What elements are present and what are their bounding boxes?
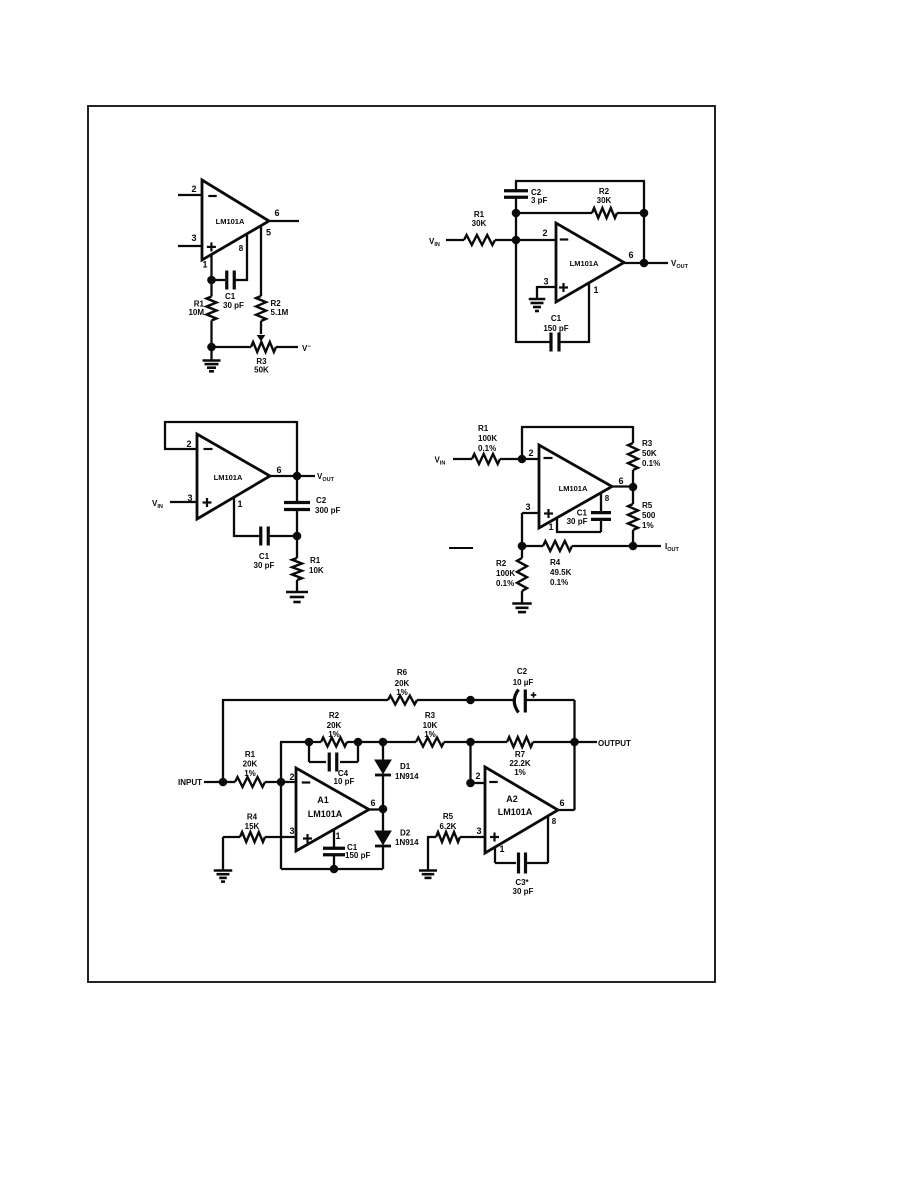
wire pin 1 leg A2 (circuit 5) <box>494 847 496 863</box>
potentiometer R3 (circuit 1) <box>251 342 276 352</box>
resistor R3 (circuit 4) <box>632 426 634 443</box>
plus input symbol (circuit 1) <box>207 246 216 248</box>
resistor R2 (circuit 2) <box>592 208 617 218</box>
resistor R2 (circuit 4) <box>521 546 523 558</box>
wire pin 1 vertical (circuit 1) <box>210 255 212 281</box>
op-amp A2 (circuit 5) <box>485 767 558 853</box>
wire pin 1 vertical (circuit 2) <box>588 283 590 343</box>
wire top rail (circuit 2) <box>515 180 645 182</box>
wire pin 2 input (circuit 2) <box>516 239 556 241</box>
wire left riser to top rail (circuit 5) <box>222 700 224 782</box>
wire R6 to C2 node (circuit 5) <box>417 699 471 701</box>
wire A2 output (circuit 5) <box>558 809 575 811</box>
svg-text:10M: 10M <box>188 308 204 317</box>
svg-text:8: 8 <box>605 494 610 503</box>
resistor R4 (circuit 4) <box>543 541 572 551</box>
svg-text:100K: 100K <box>478 434 497 443</box>
wire pin 8 (circuit 1) <box>235 279 248 281</box>
svg-text:2: 2 <box>528 448 533 458</box>
ground (circuit 2) <box>529 298 546 301</box>
plus input symbol (circuit 3) <box>203 501 212 503</box>
wire C2 down to output line (circuit 5) <box>573 700 575 742</box>
svg-text:3: 3 <box>191 233 196 243</box>
potentiometer wiper arrow (circuit 1) <box>257 335 266 342</box>
svg-text:R2: R2 <box>496 559 507 568</box>
svg-text:C1: C1 <box>259 552 270 561</box>
svg-text:C1: C1 <box>225 292 236 301</box>
op-amp LM101A (circuit 2) <box>556 223 624 302</box>
svg-text:R3: R3 <box>642 439 653 448</box>
op-amp A1 (circuit 5) <box>296 768 369 851</box>
svg-text:1: 1 <box>548 522 553 532</box>
junction left bottom node (circuit 4) <box>518 542 527 551</box>
svg-text:30 pF: 30 pF <box>254 561 275 570</box>
svg-text:0.1%: 0.1% <box>496 579 514 588</box>
resistor R1 (circuit 1) <box>210 280 212 297</box>
svg-text:6: 6 <box>274 208 279 218</box>
svg-text:5.1M: 5.1M <box>271 308 289 317</box>
minus input symbol (circuit 1) <box>208 195 217 197</box>
svg-text:R5: R5 <box>443 812 454 821</box>
wire pin 5 vertical (circuit 1) <box>260 225 262 296</box>
svg-text:R1: R1 <box>310 556 321 565</box>
wire R1 to A1 pin 2 (circuit 5) <box>265 781 296 783</box>
wire pin 3 input (circuit 1) <box>178 245 202 247</box>
svg-text:LM101A: LM101A <box>559 484 588 493</box>
svg-text:10 pF: 10 pF <box>334 777 355 786</box>
capacitor C3 (circuit 5) <box>517 853 520 874</box>
svg-text:R4: R4 <box>247 813 258 822</box>
junction feedback/output top (circuit 2) <box>640 209 649 218</box>
wire input to pin 2 (circuit 5) <box>223 781 235 783</box>
svg-text:0.1%: 0.1% <box>642 459 660 468</box>
junction feedback tee (circuit 2) <box>512 209 521 218</box>
svg-text:R5: R5 <box>642 501 653 510</box>
svg-text:10K: 10K <box>309 566 324 575</box>
resistor R1 (circuit 4) <box>472 454 500 464</box>
svg-text:R7: R7 <box>515 750 526 759</box>
resistor R1 (circuit 3) <box>296 536 298 558</box>
junction node pin1/C1/R1 (circuit 1) <box>207 276 216 285</box>
resistor R4 (circuit 5) <box>223 836 240 838</box>
junction A2 pin 2 node (circuit 5) <box>466 779 475 788</box>
wire pin 1 leg (circuit 4) <box>556 518 558 532</box>
svg-text:R3: R3 <box>425 711 436 720</box>
minus input symbol (circuit 2) <box>560 238 569 240</box>
svg-text:150 pF: 150 pF <box>345 851 370 860</box>
junction C1 bottom node (circuit 5) <box>330 865 339 874</box>
svg-text:30 pF: 30 pF <box>223 301 244 310</box>
svg-text:3: 3 <box>525 502 530 512</box>
svg-text:20K: 20K <box>395 679 410 688</box>
resistor R7 (circuit 5) <box>507 737 533 747</box>
svg-text:1: 1 <box>499 844 504 854</box>
wire pin 3 input (circuit 3) <box>170 501 197 503</box>
resistor R6 (circuit 5) <box>388 696 417 705</box>
svg-text:49.5K: 49.5K <box>550 568 572 577</box>
svg-text:LM101A: LM101A <box>308 809 343 819</box>
svg-text:3 pF: 3 pF <box>531 196 548 205</box>
svg-text:C1: C1 <box>551 314 562 323</box>
capacitor C2 polarized (circuit 5) <box>514 690 518 713</box>
wire feedback right leg (circuit 3) <box>296 421 298 476</box>
junction output node (circuit 2) <box>640 259 649 268</box>
wire output pin 6 (circuit 2) <box>624 262 668 264</box>
junction top rail node (circuit 5) <box>466 696 475 705</box>
wire top rail left (circuit 5) <box>222 699 388 701</box>
capacitor C2 (circuit 3) <box>296 476 298 502</box>
junction A1 pin 2 node (circuit 5) <box>277 778 286 787</box>
resistor R2 (circuit 5) <box>321 738 347 747</box>
svg-text:LM101A: LM101A <box>498 807 533 817</box>
svg-text:6.2K: 6.2K <box>440 822 457 831</box>
junction summing node (circuit 2) <box>512 236 521 245</box>
junction node ground rail (circuit 1) <box>207 343 216 352</box>
wire bottom rail (circuit 4) <box>522 545 543 547</box>
wire node to feedback tee (circuit 2) <box>515 213 517 240</box>
resistor R3 (circuit 5) <box>416 738 444 747</box>
junction INPUT node (circuit 5) <box>219 778 228 787</box>
junction A1 output node (circuit 5) <box>379 805 388 814</box>
svg-text:LM101A: LM101A <box>570 259 599 268</box>
junction input node (circuit 4) <box>518 455 527 464</box>
resistor R2 (circuit 1) <box>256 296 266 321</box>
wire output pin 6 (circuit 1) <box>269 220 299 222</box>
wire pin 1 leg (circuit 3) <box>233 497 235 537</box>
svg-text:10 µF: 10 µF <box>513 678 534 687</box>
wire R2 to D1 node (circuit 5) <box>347 741 416 743</box>
wire pin 3 to ground (circuit 2) <box>537 286 556 288</box>
junction A2 feedback node (circuit 5) <box>466 738 475 747</box>
svg-text:6: 6 <box>618 476 623 486</box>
svg-text:30K: 30K <box>597 196 612 205</box>
resistor R1 (circuit 2) <box>464 235 495 245</box>
svg-text:R1: R1 <box>478 424 489 433</box>
minus input symbol (circuit 3) <box>204 448 213 450</box>
plus input symbol A2 (circuit 5) <box>490 836 499 838</box>
svg-text:2: 2 <box>289 772 294 782</box>
svg-text:0.1%: 0.1% <box>478 444 496 453</box>
svg-text:R2: R2 <box>329 711 340 720</box>
plus polarity mark C2 (circuit 5) <box>531 694 537 696</box>
wire output pin 6 (circuit 4) <box>612 485 633 487</box>
ground R4 (circuit 5) <box>214 869 233 872</box>
svg-text:LM101A: LM101A <box>214 473 243 482</box>
svg-text:D1: D1 <box>400 762 411 771</box>
svg-text:0.1%: 0.1% <box>550 578 568 587</box>
svg-text:1%: 1% <box>244 769 256 778</box>
resistor R1 (circuit 5) <box>235 777 265 787</box>
junction R2/C4 left node (circuit 5) <box>305 738 314 747</box>
svg-text:3: 3 <box>476 826 481 836</box>
wire VIN to R1 (circuit 2) <box>446 239 464 241</box>
minus input symbol (circuit 4) <box>544 457 553 459</box>
svg-text:R6: R6 <box>397 668 408 677</box>
svg-text:1N914: 1N914 <box>395 838 419 847</box>
svg-text:50K: 50K <box>642 449 657 458</box>
capacitor C4 (circuit 5) <box>308 742 310 762</box>
svg-text:C2: C2 <box>517 667 528 676</box>
svg-text:30K: 30K <box>472 219 487 228</box>
svg-text:OUTPUT: OUTPUT <box>598 739 631 748</box>
wire R1 to summing node (circuit 2) <box>495 239 516 241</box>
svg-text:10K: 10K <box>423 721 438 730</box>
svg-text:1N914: 1N914 <box>395 772 419 781</box>
svg-text:8: 8 <box>552 817 557 826</box>
resistor R5 (circuit 5) <box>428 836 436 838</box>
wire output pin 6 (circuit 3) <box>270 475 315 477</box>
plus input symbol A1 (circuit 5) <box>303 837 312 839</box>
svg-text:A1: A1 <box>317 795 329 805</box>
svg-text:50K: 50K <box>254 366 269 375</box>
wire pin 2 input (circuit 3) <box>164 448 197 450</box>
wire input-node down leg (circuit 2) <box>515 240 517 343</box>
wire R3 to R7 (circuit 5) <box>444 741 507 743</box>
wire pin 3 leg (circuit 4) <box>522 512 539 514</box>
svg-text:30 pF: 30 pF <box>567 517 588 526</box>
svg-text:C2: C2 <box>316 496 327 505</box>
svg-text:1: 1 <box>237 499 242 509</box>
capacitor C1 (circuit 4) <box>591 511 611 514</box>
svg-text:R4: R4 <box>550 558 561 567</box>
svg-text:1%: 1% <box>424 730 436 739</box>
junction D1 top node (circuit 5) <box>379 738 388 747</box>
capacitor C1 (circuit 5) <box>333 830 335 848</box>
svg-text:5: 5 <box>266 228 271 238</box>
svg-text:2: 2 <box>191 184 196 194</box>
wire pin 2 input (circuit 1) <box>178 194 202 196</box>
wire bottom rail (circuit 1) <box>212 346 252 348</box>
svg-text:6: 6 <box>276 465 281 475</box>
wire A2 pin 2 input (circuit 5) <box>471 782 486 784</box>
wire node to C2 (circuit 5) <box>471 699 515 701</box>
svg-text:INPUT: INPUT <box>178 778 202 787</box>
svg-text:100K: 100K <box>496 569 515 578</box>
svg-text:1%: 1% <box>642 521 654 530</box>
svg-text:R2: R2 <box>599 187 610 196</box>
svg-text:6: 6 <box>559 798 564 808</box>
junction OUTPUT node (circuit 5) <box>570 738 579 747</box>
wire R5 to ground (circuit 5) <box>427 836 429 871</box>
wire pin 2 input (circuit 4) <box>522 458 539 460</box>
plus input symbol (circuit 2) <box>559 286 568 288</box>
svg-text:300 pF: 300 pF <box>315 506 340 515</box>
svg-text:1%: 1% <box>514 768 526 777</box>
minus input symbol A1 (circuit 5) <box>302 781 311 783</box>
svg-text:3: 3 <box>543 277 548 287</box>
wire VIN to R1 (circuit 4) <box>453 458 472 460</box>
svg-text:22.2K: 22.2K <box>509 759 531 768</box>
capacitor C2 (circuit 2) <box>515 197 517 214</box>
svg-text:6: 6 <box>370 798 375 808</box>
svg-text:1: 1 <box>593 285 598 295</box>
ground (circuit 3) <box>286 591 308 594</box>
ground (circuit 4) <box>512 602 532 605</box>
svg-text:1%: 1% <box>396 688 408 697</box>
svg-text:30 pF: 30 pF <box>513 887 534 896</box>
svg-text:2: 2 <box>475 771 480 781</box>
wire feedback to R2 (circuit 2) <box>516 212 592 214</box>
wire INPUT lead (circuit 5) <box>204 781 223 783</box>
diode D2 (circuit 5) <box>382 809 384 831</box>
plus input symbol (circuit 4) <box>544 512 553 514</box>
svg-text:R1: R1 <box>245 750 256 759</box>
svg-text:8: 8 <box>239 244 244 253</box>
svg-text:1: 1 <box>335 831 340 841</box>
wire output vertical (circuit 2) <box>643 213 645 263</box>
op-amp LM101A (circuit 1) <box>202 180 269 260</box>
wire R4 to ground (circuit 5) <box>222 837 224 870</box>
junction right bottom node (circuit 4) <box>629 542 638 551</box>
svg-text:2: 2 <box>542 228 547 238</box>
wire riser to A2 pin 2 (circuit 5) <box>469 742 471 783</box>
stray dash mark (circuit 4) <box>449 547 473 549</box>
svg-text:R2: R2 <box>271 299 282 308</box>
svg-text:C3*: C3* <box>515 878 529 887</box>
op-amp LM101A (circuit 4) <box>539 445 612 528</box>
ground R5 (circuit 5) <box>419 869 437 872</box>
junction output node (circuit 4) <box>629 483 638 492</box>
resistor R5 (circuit 4) <box>632 487 634 504</box>
op-amp LM101A (circuit 3) <box>197 434 270 519</box>
capacitor C1 (circuit 3) <box>259 527 262 546</box>
wire pin 8 vertical A2 (circuit 5) <box>547 816 549 863</box>
svg-text:20K: 20K <box>327 721 342 730</box>
svg-text:15K: 15K <box>245 822 260 831</box>
junction C1/C2/R1 node (circuit 3) <box>293 532 302 541</box>
svg-text:20K: 20K <box>243 760 258 769</box>
svg-text:A2: A2 <box>506 794 518 804</box>
svg-text:1: 1 <box>202 260 207 270</box>
wire feedback left riser (circuit 5) <box>280 742 282 869</box>
svg-text:500: 500 <box>642 511 656 520</box>
minus input symbol A2 (circuit 5) <box>489 781 498 783</box>
capacitor C1 (circuit 2) <box>516 341 550 343</box>
wire A1 bottom rail (circuit 5) <box>281 868 383 870</box>
svg-text:R1: R1 <box>474 210 485 219</box>
diode D1 (circuit 5) <box>382 742 384 760</box>
svg-text:3: 3 <box>289 826 294 836</box>
svg-text:LM101A: LM101A <box>216 217 245 226</box>
svg-text:150 pF: 150 pF <box>543 324 568 333</box>
svg-text:D2: D2 <box>400 829 411 838</box>
ground (circuit 1) <box>210 347 212 360</box>
svg-text:3: 3 <box>187 493 192 503</box>
wire feedback top rail (circuit 3) <box>165 421 297 423</box>
wire R1 to node (circuit 4) <box>500 458 522 460</box>
junction R2/C4 right node (circuit 5) <box>354 738 363 747</box>
svg-text:6: 6 <box>628 250 633 260</box>
wire node up to top rail (circuit 4) <box>521 427 523 459</box>
wire R7 to OUTPUT (circuit 5) <box>533 741 597 743</box>
svg-text:2: 2 <box>186 439 191 449</box>
svg-text:1%: 1% <box>328 730 340 739</box>
wire R2 to output branch (circuit 2) <box>617 212 644 214</box>
wire R2 line left (circuit 5) <box>280 741 321 743</box>
capacitor C1 (circuit 1) <box>212 279 226 281</box>
junction output node (circuit 3) <box>293 472 302 481</box>
wire pin 8 vertical (circuit 4) <box>600 493 602 512</box>
wire A1 output (circuit 5) <box>369 808 383 810</box>
